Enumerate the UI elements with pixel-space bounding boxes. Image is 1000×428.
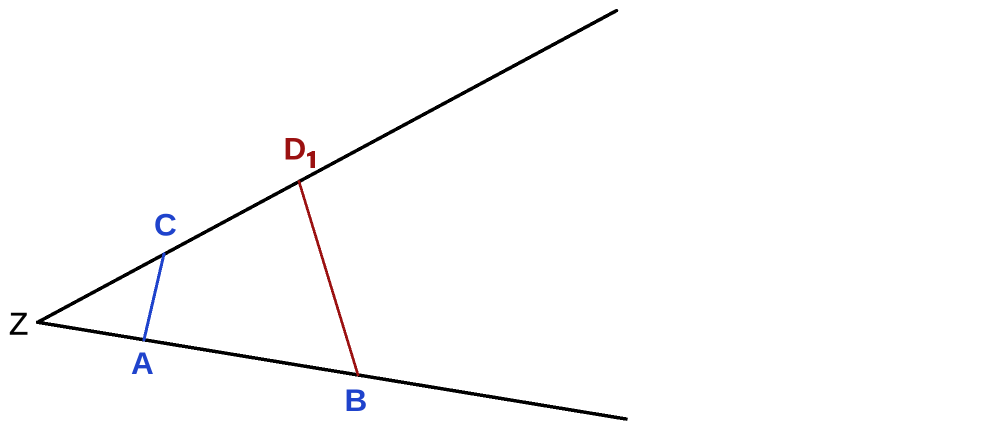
svg-text:B: B — [345, 382, 368, 418]
svg-text:Z: Z — [9, 306, 28, 342]
svg-text:A: A — [131, 345, 154, 381]
segment D1-B (dark red) — [299, 182, 358, 375]
svg-text:C: C — [154, 207, 177, 243]
svg-text:D: D — [284, 131, 307, 167]
segment C-A (blue) — [144, 254, 164, 340]
ray lower (from vertex Z through A and B) — [38, 322, 626, 419]
ray upper (from vertex Z through C and D1) — [38, 11, 617, 323]
